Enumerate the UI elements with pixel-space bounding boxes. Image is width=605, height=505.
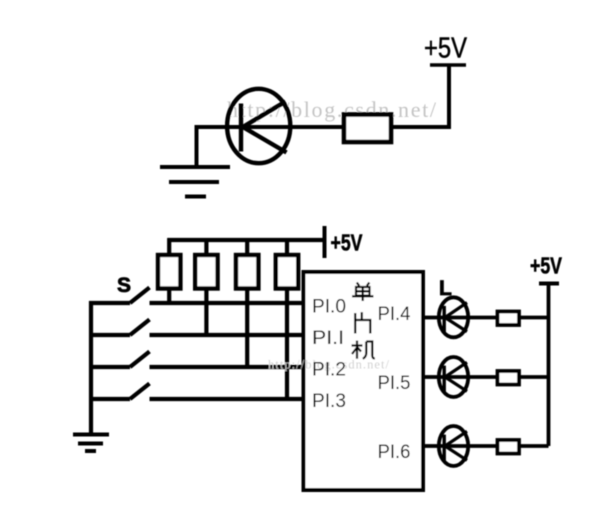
switch S2 row P1.1 <box>89 320 304 336</box>
wire LED L1 to resistor R5 <box>470 316 498 320</box>
wire resistor R5 to +5V rail <box>519 316 549 320</box>
svg-text:PI.3: PI.3 <box>312 390 346 412</box>
ground (bottom-left) <box>73 435 109 452</box>
svg-text:+5V: +5V <box>331 230 363 256</box>
wire +5V rail (right) <box>547 284 551 447</box>
wire resistor R0 to +5V <box>391 66 449 127</box>
svg-text:PI.0: PI.0 <box>312 296 346 318</box>
svg-text:PI.4: PI.4 <box>378 303 411 325</box>
resistor R2 (pull-up) <box>195 238 217 335</box>
switch S4 row P1.3 <box>89 384 304 400</box>
power +5V (right) <box>530 253 562 284</box>
svg-text:S: S <box>117 274 131 297</box>
power +5V rail (bottom-left) <box>168 226 363 258</box>
svg-text:PI.5: PI.5 <box>378 372 411 394</box>
MCU label 片 <box>355 312 371 333</box>
svg-text:PI.I: PI.I <box>312 327 344 349</box>
MCU label 单 <box>352 283 374 302</box>
ground (top circuit) <box>160 167 230 197</box>
resistor R6 <box>498 371 520 385</box>
resistor R1 (pull-up) <box>158 238 180 303</box>
wire resistor R6 to +5V rail <box>519 375 549 379</box>
LED L1 row P1.4 <box>423 297 470 337</box>
wire LED L2 to resistor R6 <box>470 375 498 379</box>
MCU U1 box 单片机 <box>304 272 424 490</box>
power +5V (top) <box>424 33 468 66</box>
svg-text:PI.6: PI.6 <box>378 441 411 463</box>
svg-text:+5V: +5V <box>424 33 468 65</box>
switch S1 row P1.0 <box>89 288 304 304</box>
LED D1 (circle transistor-style symbol) <box>226 89 291 163</box>
wire LED L3 to resistor R7 <box>470 444 498 448</box>
resistor R4 (pull-up) <box>276 238 298 399</box>
switch S3 row P1.2 <box>89 352 304 368</box>
LED L2 row P1.5 <box>423 357 470 397</box>
resistor R3 (pull-up) <box>236 238 258 367</box>
wire LED to resistor R0 <box>291 125 344 129</box>
MCU label 机 <box>352 341 375 359</box>
switch bus wire (left) <box>89 301 93 434</box>
resistor R0 <box>344 115 391 143</box>
svg-text:+5V: +5V <box>530 253 562 279</box>
wire resistor R7 to +5V rail <box>519 444 549 448</box>
wire ground to LED D1 <box>197 127 227 167</box>
LED L3 row P1.6 <box>423 426 470 466</box>
resistor R7 <box>498 440 520 454</box>
svg-text:PI.2: PI.2 <box>312 359 346 381</box>
resistor R5 <box>498 312 520 326</box>
